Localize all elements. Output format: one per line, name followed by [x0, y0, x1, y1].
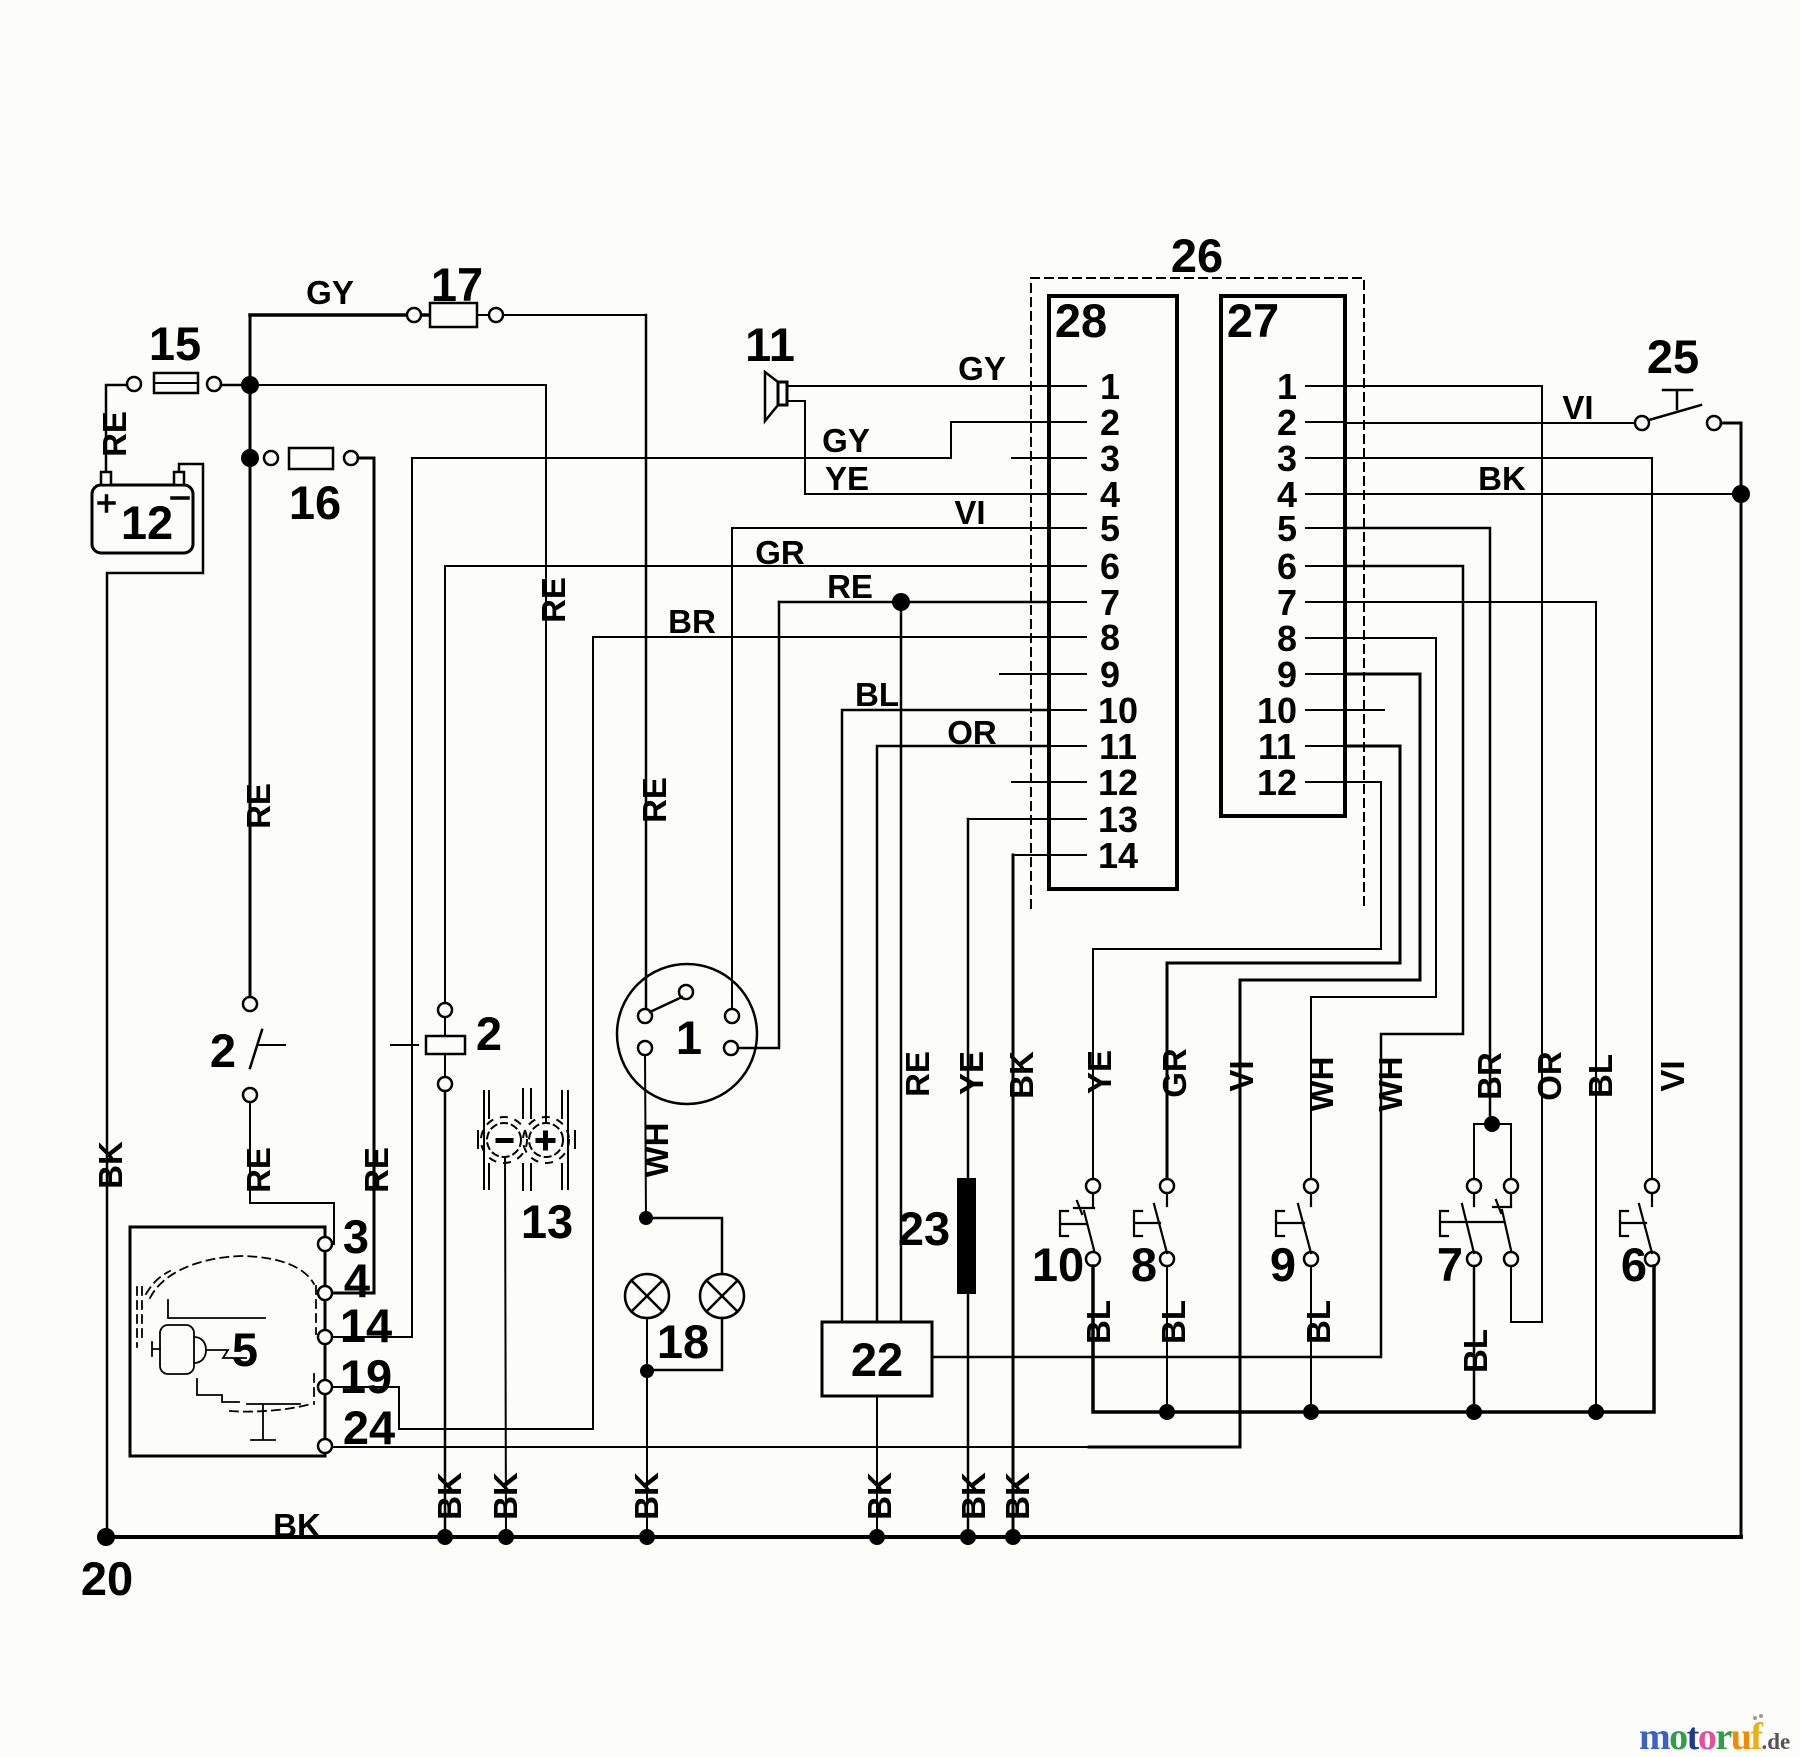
svg-text:11: 11 [1099, 726, 1137, 767]
svg-text:BL: BL [1582, 1054, 1619, 1098]
svg-text:BL: BL [1300, 1300, 1337, 1344]
wire ignition feed vertical (RE) [645, 315, 648, 1009]
wire YE pin 13 of 28 down through fuse 23 [967, 819, 970, 1537]
junction dots ground bus [437, 1529, 453, 1545]
wire main RE vertical [249, 315, 252, 997]
wire ignition C to lamps (WH) [645, 1055, 646, 1218]
dashed harness box 26 [1031, 278, 1364, 908]
wire RE line to connector 28 pin 7 [779, 601, 1086, 604]
svg-text:OR: OR [947, 714, 997, 751]
svg-text:2: 2 [1100, 402, 1120, 443]
svg-text:RE: RE [899, 1051, 936, 1097]
svg-text:BL: BL [1155, 1300, 1192, 1344]
svg-text:8: 8 [1131, 1238, 1157, 1291]
fuse 17 [407, 303, 503, 327]
battery 12 [92, 472, 193, 553]
wire switch 8 to BL bus [1166, 1266, 1168, 1412]
wire BL pin 7 of 27 to BL bus [1345, 602, 1596, 1412]
svg-text:VI: VI [954, 494, 985, 531]
svg-text:RE: RE [827, 568, 873, 605]
wire OR pin 1 of 27 to switch 7 right pole [1345, 386, 1542, 1322]
svg-text:BK: BK [999, 1472, 1036, 1520]
lamps 18 [625, 1211, 744, 1537]
svg-text:12: 12 [1257, 762, 1297, 803]
wire RE drop to unit 22 [900, 602, 903, 1322]
wire charging minus to ground bus [505, 1157, 506, 1537]
connector 27 box [1221, 296, 1345, 816]
wire fuse 15 to node [221, 384, 250, 387]
svg-text:YE: YE [953, 1051, 990, 1095]
wire VI pin 3 of 27 to switch 6 [1345, 458, 1652, 1178]
fuse 23 [957, 1178, 976, 1294]
svg-text:RE: RE [240, 783, 277, 829]
svg-text:11: 11 [745, 318, 795, 371]
relay 2 [426, 1003, 465, 1091]
svg-text:BR: BR [668, 603, 716, 640]
svg-text:14: 14 [1098, 835, 1138, 876]
svg-text:12: 12 [121, 496, 173, 549]
switch 2 [243, 997, 426, 1102]
svg-text:GY: GY [822, 422, 870, 459]
svg-text:5: 5 [232, 1323, 258, 1376]
wire OR pin 11 of 28 to unit 22 [877, 746, 1049, 1322]
wire resistor 16 to engine pin 4 feed [333, 458, 374, 1293]
svg-text:23: 23 [898, 1202, 950, 1255]
svg-text:17: 17 [431, 258, 483, 311]
svg-text:19: 19 [340, 1350, 392, 1403]
switch 6 [1620, 1179, 1659, 1266]
svg-text:9: 9 [1270, 1238, 1296, 1291]
switch 9 [1276, 1179, 1318, 1266]
wire BK pin 4 of 27 to right riser [1345, 493, 1741, 495]
wire VI pin 9 of 27 to engine pin 24 [1089, 674, 1420, 1447]
wire BL pin 10 of 28 to unit 22 [842, 710, 1049, 1322]
svg-text:24: 24 [343, 1401, 395, 1454]
wire VI pin 2 of 27 to switch 25 [1345, 422, 1635, 424]
engine pin 3 [318, 1237, 332, 1251]
wire switch 25 to BK node [1721, 423, 1741, 1537]
charging unit 13 [478, 1089, 575, 1190]
wire GY bus top (node to ignition feed corner) [250, 313, 430, 317]
svg-text:VI: VI [1223, 1060, 1260, 1091]
svg-text:3: 3 [1100, 438, 1120, 479]
svg-text:5: 5 [1100, 508, 1120, 549]
engine pin 19 [318, 1380, 332, 1394]
engine pin 24 [318, 1439, 332, 1453]
svg-text:RE: RE [535, 577, 572, 623]
svg-text:YE: YE [825, 460, 869, 497]
wire WH pin 8 of 27 to switch 9 [1311, 638, 1436, 1178]
svg-text:15: 15 [149, 317, 201, 370]
svg-text:WH: WH [638, 1123, 675, 1178]
svg-text:1: 1 [676, 1011, 702, 1064]
wire unit 22 to ground bus [876, 1396, 878, 1537]
svg-text:12: 12 [1098, 762, 1138, 803]
resistor 16 [264, 448, 358, 469]
wire GR pin 11 of 27 to switch 8 [1167, 746, 1400, 1178]
svg-text:26: 26 [1171, 229, 1223, 282]
wire YE pin 12 of 27 to switch 10 [1093, 782, 1381, 1178]
wire horn to pin 4 of 28 (YE) [787, 401, 1086, 494]
wire switch 2 to engine pin 3 [250, 1102, 334, 1244]
svg-text:3: 3 [1277, 438, 1297, 479]
svg-text:7: 7 [1437, 1238, 1463, 1291]
engine 5 box [130, 1227, 325, 1456]
wire relay 2 to ground bus [444, 1091, 447, 1537]
svg-text:10: 10 [1032, 1238, 1084, 1291]
node RE line [892, 593, 910, 611]
svg-text:VI: VI [1654, 1060, 1691, 1091]
svg-text:2: 2 [210, 1024, 236, 1077]
svg-text:BL: BL [1457, 1329, 1494, 1373]
svg-text:27: 27 [1227, 294, 1279, 347]
svg-text:BK: BK [431, 1472, 468, 1520]
svg-text:RE: RE [240, 1147, 277, 1193]
svg-text:13: 13 [521, 1195, 573, 1248]
wire engine pin 14 riser to connector 28 pin 2 [332, 422, 1086, 1337]
svg-text:WH: WH [1372, 1057, 1409, 1112]
node 20 [97, 1528, 115, 1546]
switch 10 [1060, 1179, 1100, 1266]
svg-text:BK: BK [1003, 1051, 1040, 1099]
svg-text:6: 6 [1277, 546, 1297, 587]
switch 25 [1635, 390, 1721, 430]
svg-text:RE: RE [96, 411, 133, 457]
svg-text:BK: BK [92, 1141, 129, 1189]
svg-text:10: 10 [1098, 690, 1138, 731]
wire battery minus loop to BK down-left [107, 464, 203, 1537]
wire ignition E to RE line pin7 [738, 602, 779, 1048]
svg-text:GY: GY [958, 350, 1006, 387]
horn 11 [765, 372, 787, 421]
svg-text:18: 18 [657, 1315, 709, 1368]
fuse 15 [127, 373, 221, 393]
svg-text:BK: BK [273, 1507, 321, 1544]
wire switch 9 to BL bus [1310, 1266, 1312, 1412]
svg-text:8: 8 [1277, 618, 1297, 659]
BL bus under switches [1093, 1266, 1654, 1412]
svg-text:GR: GR [755, 534, 805, 571]
engine pin 4 [318, 1286, 332, 1300]
node BK right [1732, 485, 1750, 503]
svg-text:VI: VI [1562, 389, 1593, 426]
pin stubs 28 [968, 386, 1086, 855]
logo motoruf.de [1639, 1714, 1790, 1757]
engine pin 14 [318, 1330, 332, 1344]
svg-text:16: 16 [289, 476, 341, 529]
svg-text:22: 22 [851, 1333, 903, 1386]
svg-text:BK: BK [1478, 460, 1526, 497]
wire node to charging plus (RE) [250, 385, 546, 1121]
ignition switch 1 [617, 964, 757, 1104]
svg-text:6: 6 [1621, 1238, 1647, 1291]
pin numbers 27 [1257, 366, 1297, 803]
svg-text:28: 28 [1055, 294, 1107, 347]
wire BR engine pin 19 to pin 8 of 28 [332, 637, 1086, 1429]
svg-text:20: 20 [81, 1552, 133, 1605]
svg-text:1: 1 [1100, 366, 1120, 407]
svg-text:2: 2 [476, 1007, 502, 1060]
svg-text:WH: WH [1303, 1057, 1340, 1112]
svg-text:5: 5 [1277, 508, 1297, 549]
unit 22 [822, 1322, 932, 1396]
svg-text:2: 2 [1277, 402, 1297, 443]
svg-text:7: 7 [1277, 582, 1297, 623]
wire BR pin 5 of 27 to switch 7 bridge [1345, 528, 1490, 1124]
svg-text:11: 11 [1258, 726, 1296, 767]
wire BK pin 14 of 28 to ground bus [1012, 855, 1015, 1537]
node A [241, 376, 259, 394]
svg-text:14: 14 [340, 1299, 392, 1352]
ground bus BK [106, 1535, 1741, 1539]
svg-text:BK: BK [487, 1472, 524, 1520]
svg-text:6: 6 [1100, 546, 1120, 587]
node B [241, 449, 259, 467]
svg-text:9: 9 [1277, 654, 1297, 695]
wire horn to pin 1 of 28 (GY) [787, 385, 1086, 387]
svg-text:YE: YE [1081, 1050, 1118, 1094]
svg-text:RE: RE [636, 777, 673, 823]
pin stubs 27 [1306, 386, 1384, 782]
svg-text:1: 1 [1277, 366, 1297, 407]
junction dots BL bus [1159, 1404, 1175, 1420]
connector 28 box [1049, 296, 1177, 889]
svg-text:BK: BK [955, 1472, 992, 1520]
switch 7 double pole [1440, 1116, 1518, 1266]
svg-text:BR: BR [1471, 1052, 1508, 1100]
svg-text:BL: BL [855, 676, 899, 713]
svg-text:13: 13 [1098, 799, 1138, 840]
svg-text:GR: GR [1156, 1048, 1193, 1098]
svg-text:motoruf.de: motoruf.de [1639, 1716, 1790, 1757]
svg-text:9: 9 [1100, 654, 1120, 695]
wire switch 7 left pole to BL bus [1473, 1266, 1476, 1412]
svg-text:8: 8 [1100, 617, 1120, 658]
svg-text:10: 10 [1257, 690, 1297, 731]
wire GR line to relay feed [445, 566, 1086, 1003]
svg-text:GY: GY [306, 274, 354, 311]
pin numbers 28 [1098, 366, 1138, 876]
switch 8 [1134, 1179, 1174, 1266]
svg-text:BK: BK [861, 1472, 898, 1520]
svg-text:BK: BK [628, 1472, 665, 1520]
svg-text:OR: OR [1531, 1051, 1568, 1101]
engine sketch [137, 1256, 316, 1412]
svg-text:25: 25 [1647, 330, 1699, 383]
wire battery plus to fuse 15 [106, 385, 127, 478]
wire WH pin 6 of 27 to unit 22 [932, 566, 1463, 1357]
svg-text:BL: BL [1080, 1300, 1117, 1344]
wire ignition D to VI line pin5 [732, 528, 1086, 1009]
svg-text:RE: RE [358, 1147, 395, 1193]
